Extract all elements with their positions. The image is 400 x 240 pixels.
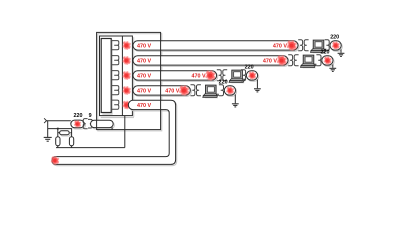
- connector J1 outer body: [101, 117, 134, 118]
- svg-text:220: 220: [74, 113, 83, 119]
- glow on 220 row 1: [332, 41, 340, 49]
- svg-text:470 V: 470 V: [273, 43, 287, 49]
- ground row 3: [254, 88, 261, 90]
- input pin tick: [44, 118, 46, 123]
- connector pair row 1: [298, 40, 302, 51]
- svg-text:220: 220: [245, 65, 254, 71]
- glow on pin 2: [122, 56, 131, 65]
- connector J1 inner body: [102, 113, 112, 114]
- computer U2: [301, 55, 317, 68]
- resistor R3 470 tube: [134, 72, 218, 81]
- ground left: [44, 136, 52, 138]
- connector pair input: [83, 119, 87, 129]
- wire cap right to bus: [71, 146, 73, 148]
- connector pin 3: [112, 71, 119, 80]
- pin to resistor row 1: [325, 40, 330, 51]
- resistor 220 row 4: [225, 87, 236, 96]
- resistor R1 470 tube: [134, 42, 299, 51]
- computer U4: [203, 85, 219, 98]
- glow at R2 output: [277, 55, 287, 65]
- svg-text:220: 220: [219, 80, 228, 86]
- pin to resistor row 2: [316, 55, 321, 66]
- svg-text:470 V: 470 V: [263, 58, 277, 64]
- wire branch left: [57, 129, 59, 137]
- wire to ground row 1: [340, 49, 342, 52]
- ground row 4: [232, 103, 239, 105]
- resistor 220 input: [72, 121, 85, 129]
- wire input: [47, 120, 71, 122]
- resistor R5 470 bent tube: [53, 102, 177, 166]
- wire connector-shell drop: [124, 116, 126, 148]
- connector pair row 4: [191, 85, 195, 96]
- resistor 220 row 1: [331, 42, 342, 51]
- glow at R1 output: [287, 40, 297, 50]
- ground row 2: [329, 67, 336, 69]
- connector pin 4: [112, 86, 119, 95]
- svg-text:470 V: 470 V: [137, 103, 151, 109]
- tube 9 to connector: [92, 122, 115, 129]
- junction: [57, 128, 59, 130]
- glow at R3 output: [205, 70, 215, 80]
- svg-text:470 V: 470 V: [165, 88, 179, 94]
- computer U3: [229, 70, 245, 83]
- svg-text:470 V: 470 V: [137, 73, 151, 79]
- capacitor vertical left: [57, 138, 58, 147]
- svg-text:470 V: 470 V: [137, 58, 151, 64]
- glow on pin 3: [122, 71, 131, 80]
- glow at R5 bottom end: [51, 156, 59, 165]
- glow on pin 1: [122, 41, 131, 50]
- resistor R2 470 tube: [134, 57, 289, 66]
- pin to resistor row 4: [219, 85, 224, 96]
- resistor 220 row 2: [323, 57, 334, 66]
- connector pair row 2: [288, 55, 292, 66]
- pin to resistor row 3: [241, 70, 246, 81]
- stub tube9 to loop: [111, 127, 113, 129]
- glow at R4 output: [179, 85, 189, 95]
- svg-text:220: 220: [321, 50, 330, 56]
- resistor 220 row 3: [248, 72, 259, 81]
- connector pin 2: [112, 56, 119, 65]
- resistor R4 470 tube: [134, 87, 191, 96]
- connector pin-field divider: [121, 36, 123, 116]
- svg-text:9: 9: [89, 113, 92, 119]
- wire to ground row 2: [332, 64, 334, 67]
- connector pair row 3: [217, 70, 221, 81]
- glow on 220 row 3: [248, 71, 256, 79]
- computer U1: [311, 40, 327, 53]
- svg-text:470 V: 470 V: [137, 43, 151, 49]
- connector pin 1: [112, 41, 119, 50]
- wire loop from input tube to top bus: [98, 34, 162, 131]
- wire bottom bus: [56, 147, 125, 149]
- svg-text:220: 220: [330, 35, 339, 41]
- wire cap left to bus: [57, 146, 59, 148]
- wire to ground left: [47, 121, 49, 138]
- glow on 220 row 4: [226, 86, 234, 94]
- resistor horizontal small: [58, 132, 60, 134]
- glow on 220 row 2: [324, 56, 332, 64]
- svg-text:470 V: 470 V: [137, 88, 151, 94]
- svg-text:470 V: 470 V: [192, 73, 206, 79]
- wire to ground row 3: [256, 79, 258, 88]
- connector pin 5: [112, 100, 119, 109]
- ground row 1: [338, 52, 345, 54]
- glow on 220 input: [74, 120, 81, 127]
- capacitor vertical right: [71, 138, 72, 147]
- glow on pin 5: [122, 101, 131, 110]
- glow on pin 4: [122, 86, 131, 95]
- wire loop over tubes: [97, 32, 161, 129]
- wire to ground row 4: [234, 94, 236, 103]
- wire divider top: [48, 129, 72, 137]
